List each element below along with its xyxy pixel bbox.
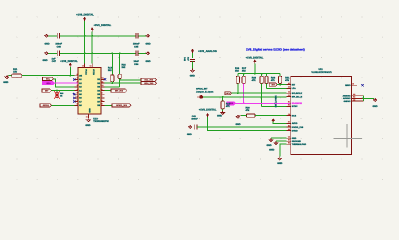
resistor R20 47k [241,107,287,118]
node INT label [42,89,74,92]
svg-text:GPIO1_3V3: GPIO1_3V3 [116,104,128,107]
svg-text:E1: E1 [288,124,290,127]
svg-text:7: 7 [77,99,78,102]
power +3V3_ANALOG [191,49,217,58]
svg-text:C45: C45 [134,45,139,48]
svg-text:D1: D1 [288,121,290,124]
capacitor C41 100nF [187,115,198,136]
svg-text:GND: GND [85,124,90,127]
svg-text:1: 1 [77,77,78,80]
node GPIO1 label [40,104,74,107]
wire C42 gnd [192,62,194,69]
wire 1V8 rail [48,35,146,37]
svg-text:Jumper_E_Open: Jumper_E_Open [196,90,214,93]
ground GND C46 [44,34,50,45]
wire [0,0,399,188]
node U10 reference [93,117,109,123]
svg-text:GND: GND [190,75,195,78]
node SDA label U11 pink [227,102,287,105]
capacitor C47 1uF [51,51,59,64]
node crosshair [334,124,363,147]
svg-text:TXS0108EPW: TXS0108EPW [93,120,109,123]
svg-text:GND: GND [235,123,240,126]
resistor R18 47k [252,74,287,107]
svg-text:GNDVC: GNDVC [344,100,351,103]
svg-text:MISO: MISO [345,84,351,87]
svg-text:C44: C44 [134,63,139,66]
svg-text:SDA: SDA [46,82,51,85]
svg-text:A2: A2 [288,86,290,89]
svg-text:SCL/SCLK: SCL/SCLK [292,92,303,95]
svg-text:6: 6 [102,99,103,102]
node GPIO1_3V3 label [112,104,131,107]
svg-text:GND: GND [266,144,271,147]
wire IOVDD row [197,126,287,128]
resistor R11 10k [9,68,75,77]
wire DVDD row [208,127,287,131]
power +3V3_DIGITAL U10 [91,24,112,63]
no-connect U10 A1 [73,78,75,80]
wire pullup bus [238,73,280,75]
resistor R22 2k2 [118,53,126,80]
resistor R31 47k [279,74,291,86]
svg-text:SDA_3V3: SDA_3V3 [144,82,154,85]
svg-text:+1V8_DIGITAL: +1V8_DIGITAL [60,60,78,63]
svg-text:A1: A1 [288,82,290,85]
svg-text:4: 4 [77,88,78,91]
node SDA label pink [42,82,74,85]
resistor R14 2k2 [108,53,114,84]
svg-text:THERMALPAD: THERMALPAD [292,143,307,146]
svg-text:100nF: 100nF [133,42,140,45]
svg-text:13: 13 [90,64,92,67]
svg-text:AVDD: AVDD [292,122,298,125]
svg-text:GND: GND [292,137,297,140]
capacitor C46 100nF [55,33,62,48]
svg-text:C1: C1 [288,94,290,97]
wire SCL_3V3 [105,80,141,87]
svg-text:GND: GND [269,148,274,151]
svg-text:A8: A8 [353,93,355,96]
svg-text:GND: GND [88,108,91,113]
op-amp U10 [78,67,101,114]
svg-text:9: 9 [77,103,78,106]
capacitor C44 10uF [134,51,140,66]
svg-text:GND: GND [3,81,8,84]
svg-text:B1: B1 [288,101,290,104]
node XSHUT vertical label [274,96,277,108]
capacitor C45 100nF [133,33,140,48]
wire U11 right vcsel pins [343,93,364,103]
no-connect U10 A6 [73,97,75,99]
wire U10 GND pin [86,114,89,119]
resistor R15 DNP [54,90,63,99]
op-amp U11 [291,76,352,154]
wire U10 left pin stubs [74,73,78,106]
wire INT_3V3 [105,90,111,92]
node GPIO1_INT note [196,88,214,94]
ground GND R11 [3,76,8,84]
svg-text:VCCA: VCCA [85,69,88,75]
ground GND C44 [145,52,150,63]
svg-text:+3V3_ANALOG: +3V3_ANALOG [198,50,217,53]
svg-text:C8: C8 [353,98,355,101]
resistor R19 47k [221,97,231,111]
svg-text:NCS: NCS [292,114,297,117]
ground VCSEL [372,99,377,109]
svg-text:+1V8_DIGITAL: +1V8_DIGITAL [199,108,217,111]
wire SDA_3V3 [105,82,141,84]
ground U10 [85,118,90,127]
node SCL label U11 [225,92,287,95]
svg-text:GROUND: GROUND [292,140,302,143]
svg-text:INT_3V3: INT_3V3 [115,89,124,92]
svg-text:C3: C3 [288,136,290,139]
svg-text:1uF: 1uF [51,57,56,60]
node U11 reference [311,68,332,74]
power +1V8_DIGITAL U10 [76,13,94,63]
no-connect U10 A5 [73,93,75,95]
svg-text:GND: GND [145,60,150,63]
svg-text:7: 7 [102,95,103,98]
svg-text:C46: C46 [57,45,62,48]
svg-text:8: 8 [77,73,78,76]
svg-text:+3V3_DIGITAL: +3V3_DIGITAL [94,24,112,27]
svg-text:GND: GND [217,115,222,118]
svg-text:1V8_Digital serves I2C/IO (see: 1V8_Digital serves I2C/IO (see datasheet… [246,47,305,51]
ground U11 GND [266,138,286,147]
wire U10 right pin stubs [101,77,105,106]
svg-text:XSHUT_EN: XSHUT_EN [274,96,277,108]
ground GND C47 [42,52,48,62]
svg-text:8: 8 [102,92,103,95]
svg-text:A3: A3 [288,91,290,94]
no-connect U11 MISO [361,84,363,86]
svg-text:C8: C8 [288,113,290,116]
svg-text:E4: E4 [288,142,290,145]
node note text [246,47,305,51]
svg-text:GND: GND [44,42,49,45]
wire VCCA stub [82,64,85,68]
ground GND C45 [145,34,150,45]
power +1V8_DIGITAL OE [60,60,78,76]
svg-text:C47: C47 [52,60,57,63]
svg-text:GPIO1_INT: GPIO1_INT [196,88,208,91]
ground U11 GROUND [269,141,286,151]
resistor R17 2k2 [242,67,247,104]
svg-text:5: 5 [102,103,103,106]
svg-text:+1V8_DIGITAL: +1V8_DIGITAL [76,13,94,16]
svg-text:5: 5 [77,92,78,95]
node SCL_3V3 label [141,78,157,81]
svg-text:IOVDD_1V8: IOVDD_1V8 [292,126,304,129]
svg-text:9: 9 [102,88,103,91]
svg-text:E7: E7 [288,139,290,142]
wire SPI_I2C_N [203,96,287,98]
svg-text:B2: B2 [288,104,290,107]
svg-text:DVDD: DVDD [292,129,298,132]
svg-text:100nF: 100nF [191,118,198,121]
svg-text:GND: GND [372,105,377,108]
node INT label U11 [269,83,286,86]
wire VCCB stub [90,64,93,68]
svg-text:VL53L5CXV0GC/1: VL53L5CXV0GC/1 [311,71,332,74]
wire U11 MISO pin [345,83,357,87]
wire 3V3 rail [48,52,146,54]
wire vcsel gnd bracket [362,96,374,101]
svg-text:11: 11 [102,80,104,83]
resistor R26 47k [265,74,287,89]
svg-text:SYNC: SYNC [292,105,298,108]
node net-tie label [197,95,206,99]
svg-text:GND: GND [187,133,192,136]
svg-text:A4: A4 [288,128,290,131]
svg-text:14: 14 [82,64,84,67]
ground R20 [235,115,241,126]
svg-text:B8: B8 [353,96,355,99]
svg-text:11: 11 [86,116,88,119]
no-connect U10 A7 [73,100,75,102]
svg-text:3: 3 [77,84,78,87]
capacitor C42 4u7 [183,57,195,62]
svg-text:GND: GND [277,162,282,165]
power AVDD flag [272,119,287,123]
svg-text:+1V8_DIGITAL: +1V8_DIGITAL [246,56,264,59]
svg-text:VCCB: VCCB [92,69,95,75]
node SDA_3V3 label [141,82,157,85]
ground U11 THERMAL [277,144,286,165]
svg-text:10uF: 10uF [134,60,140,63]
wire GPIO1_3V3 [105,104,112,106]
svg-text:AVSSVC: AVSSVC [343,97,351,100]
svg-text:GND: GND [42,59,47,62]
node INT_3V3 label [111,89,127,92]
resistor R16 2k2 [235,67,240,94]
svg-text:SPI_I2C_N: SPI_I2C_N [292,95,303,98]
wire U11 left pins [287,82,307,146]
svg-text:10: 10 [102,84,104,87]
power +1V8_DIGITAL IOVDD [199,108,217,128]
svg-text:AVDDVC: AVDDVC [343,95,351,98]
node SCL label [42,77,74,87]
svg-text:12: 12 [102,77,104,80]
svg-text:GND: GND [145,42,150,45]
svg-text:2: 2 [77,80,78,83]
wire U10 pin names [79,69,101,113]
no-connect U10 B1 [104,78,106,80]
svg-text:GPIO1: GPIO1 [43,104,50,107]
svg-text:16: 16 [352,83,354,86]
svg-text:100nF: 100nF [55,42,62,45]
ground R19 [217,111,225,118]
power +1V8_DIGITAL U11 [246,56,264,73]
svg-text:SDA/MOSI: SDA/MOSI [292,102,303,105]
svg-text:6: 6 [77,95,78,98]
ground C42 [190,69,195,78]
